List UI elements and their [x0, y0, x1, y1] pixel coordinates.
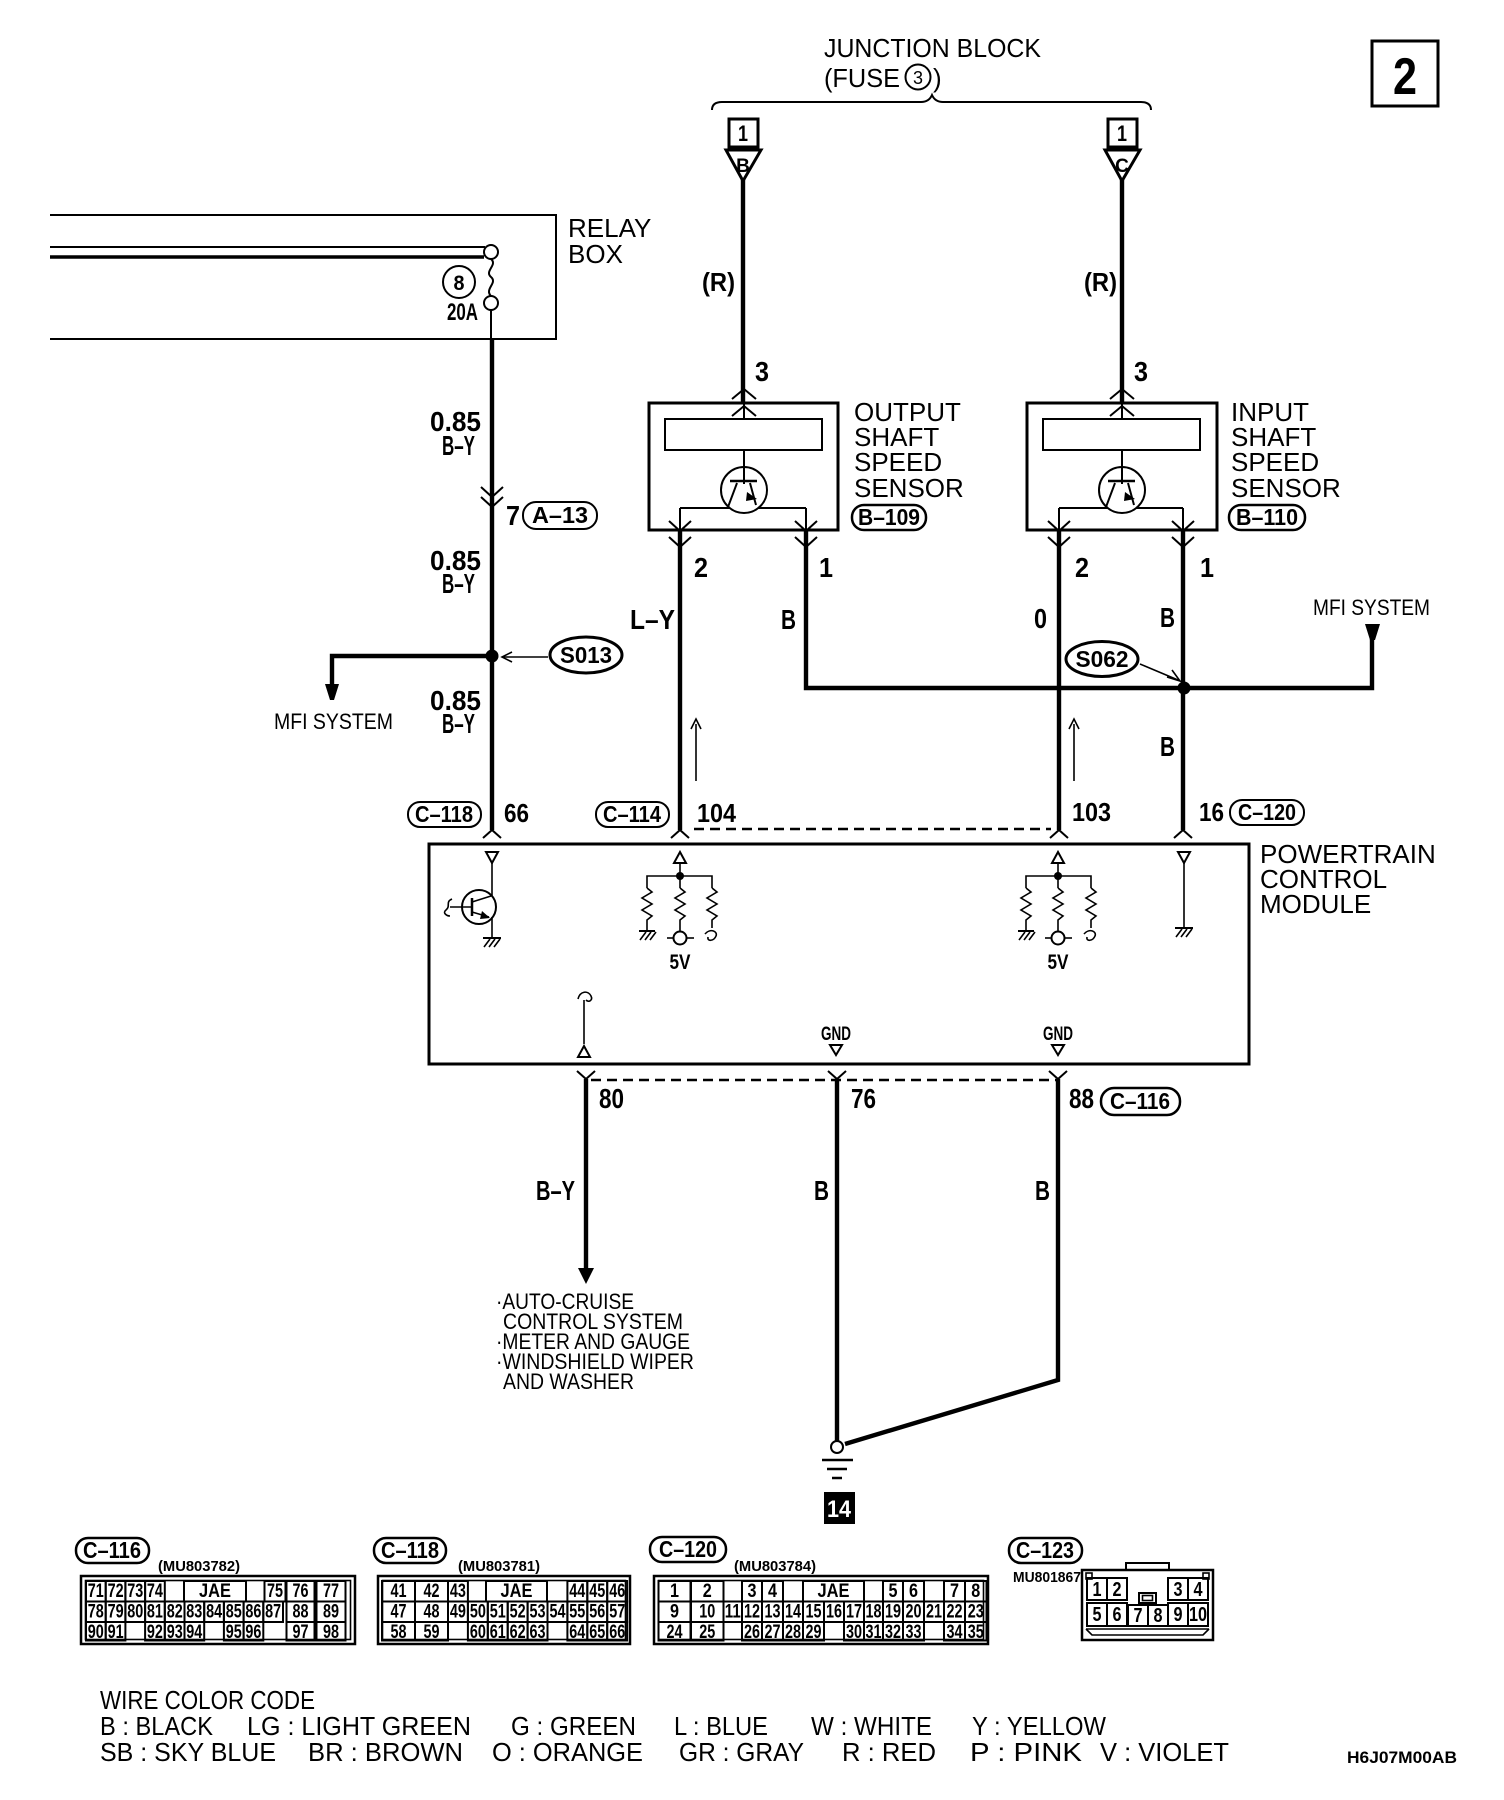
wire color code legend [100, 1685, 1229, 1767]
svg-text:C–114: C–114 [603, 801, 661, 827]
ground (left resistor 103) [1018, 931, 1035, 940]
connector table C-116 [76, 1537, 355, 1644]
svg-text:27: 27 [765, 1622, 781, 1643]
svg-text:(MU803782): (MU803782) [158, 1558, 240, 1575]
svg-text:SENSOR: SENSOR [854, 473, 964, 503]
svg-text:2: 2 [703, 1581, 712, 1602]
connector label C-120 [1230, 799, 1304, 825]
svg-text:84: 84 [206, 1602, 222, 1623]
svg-text:9: 9 [1174, 1604, 1183, 1626]
svg-text:V : VIOLET: V : VIOLET [1100, 1737, 1229, 1767]
svg-text:(FUSE: (FUSE [824, 63, 900, 93]
resistor R-mid (103 to 5V) [1053, 888, 1063, 931]
svg-text:B–Y: B–Y [442, 568, 475, 599]
svg-text:25: 25 [699, 1622, 715, 1643]
svg-text:JUNCTION BLOCK: JUNCTION BLOCK [824, 33, 1042, 63]
svg-text:10: 10 [1189, 1604, 1207, 1626]
svg-text:JAE: JAE [199, 1581, 231, 1602]
svg-text:14: 14 [785, 1602, 801, 1623]
svg-text:2: 2 [1113, 1579, 1122, 1601]
svg-text:81: 81 [147, 1602, 163, 1623]
svg-text:66: 66 [609, 1622, 625, 1643]
svg-text:B–Y: B–Y [442, 430, 475, 461]
wire 0.85 B-Y from relay box to PCM pin 66 [490, 339, 494, 830]
svg-text:92: 92 [147, 1622, 163, 1643]
svg-text:16: 16 [826, 1602, 842, 1623]
svg-text:1: 1 [1093, 1579, 1102, 1601]
chevrons at input sensor pin 1 [1172, 521, 1194, 547]
svg-text:B–Y: B–Y [536, 1175, 575, 1206]
svg-text:(R): (R) [702, 267, 735, 297]
arrow to MFI SYSTEM left [325, 684, 339, 700]
svg-text:C–118: C–118 [415, 801, 473, 827]
svg-text:12: 12 [744, 1602, 760, 1623]
chevrons at output sensor pin 1 [795, 521, 817, 547]
wire end split at PCM pin 66 [483, 830, 501, 838]
svg-text:21: 21 [926, 1602, 942, 1623]
svg-text:7: 7 [950, 1581, 959, 1602]
in-line connector chevrons 7 (A-13) [481, 487, 503, 507]
svg-text:49: 49 [450, 1602, 466, 1623]
connector label B-110 [1229, 504, 1305, 530]
signal direction arrow beside wire 104 [691, 719, 701, 781]
svg-text:B: B [736, 156, 750, 177]
svg-text:104: 104 [697, 798, 736, 828]
svg-text:1: 1 [1200, 552, 1214, 583]
svg-text:0: 0 [1034, 603, 1047, 634]
svg-text:43: 43 [450, 1581, 466, 1602]
svg-text:SB : SKY BLUE: SB : SKY BLUE [100, 1737, 276, 1767]
svg-text:29: 29 [806, 1622, 822, 1643]
svg-text:20A: 20A [447, 299, 478, 326]
svg-text:B: B [814, 1175, 829, 1206]
svg-text:61: 61 [490, 1622, 506, 1643]
svg-text:3: 3 [1134, 356, 1148, 387]
signal direction arrow beside wire 103 [1069, 719, 1079, 781]
svg-text:BR : BROWN: BR : BROWN [308, 1737, 463, 1767]
wire end split at PCM pin 104 [671, 830, 689, 838]
svg-text:72: 72 [108, 1581, 124, 1602]
svg-text:26: 26 [744, 1622, 760, 1643]
svg-text:33: 33 [906, 1622, 922, 1643]
svg-text:3: 3 [913, 68, 923, 88]
cut-wire hook (pin 80 internal) [578, 992, 592, 1001]
svg-text:16: 16 [1199, 797, 1224, 827]
svg-text:B–109: B–109 [858, 504, 920, 530]
svg-text:GND: GND [821, 1024, 851, 1045]
svg-text:C–118: C–118 [381, 1537, 439, 1563]
resistor R-mid (104 to 5V) [675, 888, 685, 931]
svg-text:98: 98 [323, 1622, 339, 1643]
svg-text:22: 22 [947, 1602, 963, 1623]
svg-text:64: 64 [569, 1622, 585, 1643]
svg-text:7: 7 [506, 500, 520, 531]
svg-text:96: 96 [245, 1622, 261, 1643]
svg-text:JAE: JAE [818, 1581, 850, 1602]
svg-text:B: B [781, 604, 796, 635]
wire end split at PCM pin 76 [828, 1071, 846, 1079]
splice junction S062 node [1178, 682, 1191, 695]
svg-text:2: 2 [1393, 48, 1417, 106]
svg-text:R : RED: R : RED [842, 1737, 936, 1767]
wire B from pin 88 to ground 14 [845, 1079, 1058, 1444]
svg-text:9: 9 [670, 1602, 679, 1623]
svg-text:C–120: C–120 [659, 1536, 717, 1562]
svg-text:MODULE: MODULE [1260, 889, 1371, 919]
svg-text:1: 1 [819, 552, 833, 583]
svg-text:5: 5 [1093, 1604, 1102, 1626]
dashed connector line below PCM [591, 1079, 1056, 1082]
svg-text:B–Y: B–Y [442, 708, 475, 739]
wire end split at PCM pin 88 [1049, 1071, 1067, 1079]
wire triangle to resistor rail [679, 863, 681, 876]
wire 0 from input sensor pin 2 to PCM pin 103 [1057, 531, 1061, 830]
input shaft speed sensor B-110 [1027, 403, 1217, 531]
PCM pin 103 input triangle [1052, 852, 1064, 863]
svg-text:80: 80 [599, 1083, 624, 1114]
PCM pin 80 output triangle [578, 1046, 590, 1057]
fuse 8 20A (terminal circles + element) [443, 245, 498, 326]
page number box 2 [1372, 41, 1438, 106]
wire branch to MFI SYSTEM (left) [332, 656, 492, 686]
connector chevrons at output sensor pin 3 [732, 389, 756, 416]
svg-text:20: 20 [906, 1602, 922, 1623]
connector table C-118 [374, 1537, 630, 1644]
svg-text:82: 82 [167, 1602, 183, 1623]
chevrons at output sensor pin 2 [669, 521, 691, 547]
svg-text:87: 87 [265, 1602, 281, 1623]
svg-text:60: 60 [470, 1622, 486, 1643]
5V source circle (104) [667, 932, 694, 975]
svg-text:78: 78 [88, 1602, 104, 1623]
dashed connector line above PCM [694, 828, 1051, 831]
svg-text:5V: 5V [670, 951, 691, 974]
label POWERTRAIN CONTROL MODULE [1260, 839, 1436, 919]
svg-text:93: 93 [167, 1622, 183, 1643]
svg-text:B: B [1160, 602, 1175, 633]
svg-text:73: 73 [127, 1581, 143, 1602]
svg-text:48: 48 [424, 1602, 440, 1623]
svg-text:7: 7 [1134, 1605, 1143, 1627]
svg-text:1: 1 [738, 121, 748, 146]
svg-text:65: 65 [589, 1622, 605, 1643]
ground (transistor emitter) [483, 938, 501, 947]
svg-text:6: 6 [1113, 1604, 1122, 1626]
wire B from input sensor pin 1 through splice S062 to PCM pin 16 [1181, 531, 1185, 830]
wire end split at PCM pin 80 [577, 1071, 595, 1079]
svg-text:75: 75 [267, 1581, 283, 1602]
svg-text:17: 17 [846, 1602, 862, 1623]
svg-text:18: 18 [866, 1602, 882, 1623]
brace for junction block [712, 95, 1151, 110]
wire B-Y from pin 80 [584, 1079, 588, 1270]
svg-text:14: 14 [827, 1496, 852, 1523]
splice junction S013 node [486, 650, 499, 663]
PCM pin 104 input triangle [674, 852, 686, 863]
svg-text:91: 91 [108, 1622, 124, 1643]
svg-text:BOX: BOX [568, 239, 623, 269]
svg-text:5V: 5V [1048, 951, 1069, 974]
bus wire upper inside relay box [50, 246, 485, 248]
connector C-123 [1009, 1537, 1213, 1640]
svg-text:103: 103 [1072, 797, 1111, 827]
svg-text:30: 30 [846, 1622, 862, 1643]
transistor in PCM (pin 66 driver) [445, 890, 496, 924]
svg-text:B: B [1035, 1175, 1050, 1206]
wire L-Y from output sensor pin 2 to PCM pin 104 [678, 531, 682, 830]
svg-text:79: 79 [108, 1602, 124, 1623]
wire from fuse to relay box edge [490, 310, 492, 339]
svg-text:8: 8 [1154, 1605, 1163, 1627]
svg-text:(MU803784): (MU803784) [734, 1558, 816, 1575]
connector 1-B (junction block, left) [726, 119, 761, 181]
PCM pin 16 input triangle [1178, 852, 1190, 863]
PCM pin 88 GND triangle [1052, 1045, 1064, 1055]
connector label C-116 [1101, 1088, 1180, 1115]
svg-text:52: 52 [510, 1602, 526, 1623]
svg-text:28: 28 [785, 1622, 801, 1643]
svg-text:B–110: B–110 [1236, 504, 1298, 530]
5V source circle (103) [1045, 932, 1072, 975]
svg-text:35: 35 [968, 1622, 984, 1643]
ground (left resistor 104) [639, 931, 656, 940]
splice label S013 [502, 637, 622, 673]
svg-text:56: 56 [589, 1602, 605, 1623]
svg-text:C: C [1115, 156, 1129, 177]
svg-text:): ) [933, 63, 942, 93]
svg-text:2: 2 [1075, 552, 1089, 583]
svg-text:24: 24 [667, 1622, 683, 1643]
svg-text:O : ORANGE: O : ORANGE [492, 1737, 643, 1767]
label JUNCTION BLOCK (FUSE 3) [824, 33, 1042, 93]
resistor R-left (103 pull) [1021, 888, 1031, 931]
svg-text:57: 57 [609, 1602, 625, 1623]
ground (pin 16) [1175, 928, 1193, 937]
arrow to MFI SYSTEM right [1365, 624, 1380, 640]
svg-text:23: 23 [968, 1602, 984, 1623]
svg-text:3: 3 [748, 1581, 757, 1602]
svg-text:44: 44 [569, 1581, 585, 1602]
svg-text:71: 71 [88, 1581, 104, 1602]
chevrons at input sensor pin 2 [1048, 521, 1070, 547]
svg-text:97: 97 [293, 1622, 309, 1643]
svg-text:B: B [1160, 731, 1175, 762]
svg-text:1: 1 [1117, 121, 1127, 146]
svg-text:C–120: C–120 [1238, 799, 1296, 825]
svg-text:P : PINK: P : PINK [970, 1737, 1083, 1767]
svg-text:4: 4 [768, 1581, 777, 1602]
svg-text:2: 2 [694, 552, 708, 583]
connector table C-120 [650, 1536, 988, 1644]
svg-text:8: 8 [454, 272, 465, 295]
resistor R-right (104) [707, 888, 717, 928]
svg-text:GND: GND [1043, 1024, 1073, 1045]
svg-text:95: 95 [226, 1622, 242, 1643]
resistor R-right (103) [1086, 888, 1096, 928]
cut-wire hook (right resistor 103) [1084, 931, 1095, 941]
PCM pin 76 GND triangle [830, 1045, 842, 1055]
svg-text:AND WASHER: AND WASHER [503, 1369, 634, 1394]
connector 1-C (junction block, right) [1105, 119, 1140, 181]
wire (R) from connector B to output sensor pin 3 [741, 179, 745, 403]
wire end split at PCM pin 103 [1050, 830, 1068, 838]
node dot resistor rail (104) [676, 872, 684, 880]
node dot resistor rail (103) [1054, 872, 1062, 880]
svg-text:S013: S013 [560, 642, 612, 668]
svg-text:(MU803781): (MU803781) [458, 1558, 540, 1575]
wire pin 16 triangle to ground [1183, 863, 1185, 928]
svg-text:SENSOR: SENSOR [1231, 473, 1341, 503]
connector label C-118 [408, 801, 481, 827]
svg-text:10: 10 [699, 1602, 715, 1623]
svg-text:55: 55 [569, 1602, 585, 1623]
svg-text:66: 66 [504, 798, 529, 828]
wire triangle to resistor rail (103) [1057, 863, 1059, 876]
svg-text:83: 83 [186, 1602, 202, 1623]
svg-text:5: 5 [889, 1581, 898, 1602]
svg-text:15: 15 [806, 1602, 822, 1623]
relay box [50, 213, 651, 339]
bus wire lower inside relay box [50, 255, 484, 259]
svg-text:GR : GRAY: GR : GRAY [679, 1737, 804, 1767]
svg-text:58: 58 [391, 1622, 407, 1643]
ground terminal circle 14 [831, 1441, 843, 1453]
wire transistor emitter to ground [491, 917, 493, 938]
svg-text:89: 89 [323, 1602, 339, 1623]
svg-text:C–123: C–123 [1016, 1537, 1074, 1563]
svg-text:88: 88 [1069, 1083, 1094, 1114]
svg-text:8: 8 [971, 1581, 980, 1602]
powertrain control module box [429, 844, 1249, 1064]
label OUTPUT SHAFT SPEED SENSOR [854, 397, 964, 503]
svg-text:C–116: C–116 [83, 1537, 141, 1563]
wire hook to pin 80 triangle [583, 1000, 585, 1044]
svg-text:86: 86 [245, 1602, 261, 1623]
earth ground symbol 14 [822, 1460, 853, 1478]
wire B from output sensor pin 1 to splice S062 [806, 531, 1184, 688]
svg-text:6: 6 [909, 1581, 918, 1602]
wire pin66 triangle to transistor [491, 863, 493, 897]
PCM pin 66 input triangle [486, 852, 498, 863]
svg-text:47: 47 [391, 1602, 407, 1623]
svg-text:74: 74 [147, 1581, 163, 1602]
svg-text:3: 3 [1174, 1579, 1183, 1601]
svg-text:(R): (R) [1084, 267, 1117, 297]
svg-text:13: 13 [765, 1602, 781, 1623]
svg-text:76: 76 [293, 1581, 309, 1602]
svg-text:34: 34 [947, 1622, 963, 1643]
svg-text:L–Y: L–Y [630, 604, 675, 635]
svg-text:32: 32 [885, 1622, 901, 1643]
svg-text:51: 51 [490, 1602, 506, 1623]
svg-text:4: 4 [1194, 1579, 1204, 1601]
svg-text:H6J07M00AB: H6J07M00AB [1347, 1748, 1457, 1767]
svg-text:19: 19 [885, 1602, 901, 1623]
svg-text:MU801867: MU801867 [1013, 1569, 1081, 1586]
resistor rail (104) [647, 876, 712, 888]
svg-text:46: 46 [609, 1581, 625, 1602]
svg-text:59: 59 [424, 1622, 440, 1643]
connector label C-114 [596, 801, 669, 827]
svg-text:50: 50 [470, 1602, 486, 1623]
svg-text:3: 3 [755, 356, 769, 387]
splice label S062 [1066, 642, 1180, 682]
arrow end of wire 80 [578, 1268, 594, 1284]
svg-text:62: 62 [510, 1622, 526, 1643]
output shaft speed sensor B-109 [649, 403, 838, 531]
svg-text:11: 11 [725, 1602, 741, 1623]
svg-text:77: 77 [323, 1581, 339, 1602]
wire from splice S062 to MFI SYSTEM (right) [1184, 639, 1372, 688]
svg-text:1: 1 [670, 1581, 679, 1602]
connector label B-109 [852, 504, 926, 530]
svg-text:31: 31 [866, 1622, 882, 1643]
connector chevrons at input sensor pin 3 [1110, 389, 1134, 416]
connector label A-13 [523, 502, 597, 529]
svg-text:42: 42 [424, 1581, 440, 1602]
svg-text:45: 45 [589, 1581, 605, 1602]
svg-text:80: 80 [127, 1602, 143, 1623]
svg-text:A–13: A–13 [532, 502, 588, 528]
label auto-cruise list [496, 1289, 694, 1394]
svg-text:MFI SYSTEM: MFI SYSTEM [1313, 595, 1430, 620]
svg-text:MFI SYSTEM: MFI SYSTEM [274, 709, 393, 734]
svg-text:76: 76 [851, 1083, 876, 1114]
resistor R-left (104 pull) [642, 888, 652, 931]
svg-text:90: 90 [88, 1622, 104, 1643]
ground ID box 14 [824, 1492, 855, 1524]
svg-text:94: 94 [186, 1622, 202, 1643]
wire (R) from connector C to input sensor pin 3 [1120, 179, 1124, 403]
svg-text:41: 41 [391, 1581, 407, 1602]
cut-wire hook (right resistor 104) [705, 931, 716, 941]
svg-text:54: 54 [550, 1602, 566, 1623]
wire end split at PCM pin 16 [1174, 830, 1192, 838]
svg-text:JAE: JAE [501, 1581, 533, 1602]
svg-text:63: 63 [530, 1622, 546, 1643]
label INPUT SHAFT SPEED SENSOR [1231, 397, 1341, 503]
svg-text:88: 88 [293, 1602, 309, 1623]
svg-text:S062: S062 [1076, 646, 1129, 672]
resistor rail (103) [1026, 876, 1091, 888]
wire B from pin 76 to ground 14 [835, 1079, 839, 1441]
svg-text:C–116: C–116 [1110, 1088, 1170, 1114]
svg-text:53: 53 [530, 1602, 546, 1623]
svg-text:85: 85 [226, 1602, 242, 1623]
